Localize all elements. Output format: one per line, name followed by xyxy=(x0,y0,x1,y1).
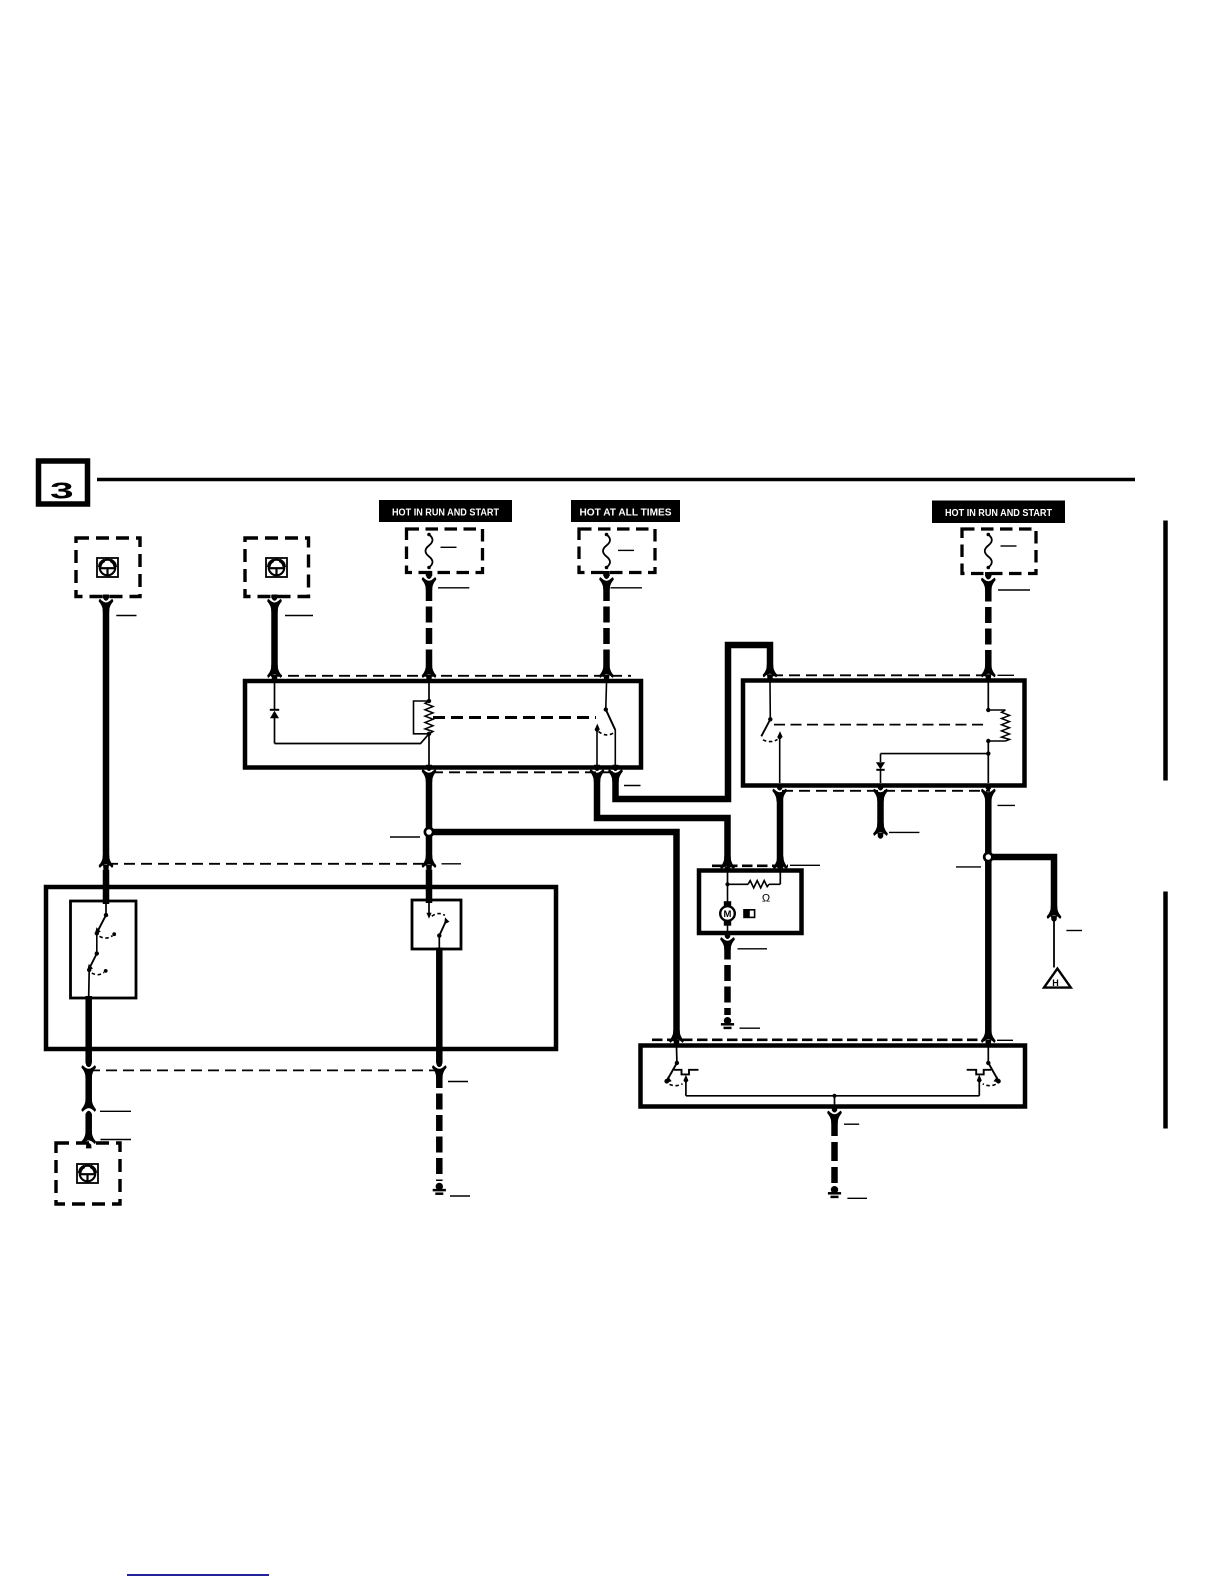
connector into switch box (from X1) xyxy=(99,855,113,904)
relay K2 row label line xyxy=(998,674,1015,676)
svg-text:3: 3 xyxy=(50,478,74,504)
wire fuse F3 to relay K2 (dashed thick) xyxy=(985,586,992,670)
fuse F2 in fuse box (dashed) xyxy=(579,529,655,573)
blower pictogram xyxy=(744,909,755,917)
wire junction to fan switch box (thick) xyxy=(985,861,992,1035)
relay K1 connector row (bottom) xyxy=(432,771,618,773)
connector out of K1 pin (coil) xyxy=(422,765,436,782)
wire label line below fuse F3 xyxy=(998,589,1030,591)
connector below motor box xyxy=(720,933,734,950)
watermark underline xyxy=(127,1574,269,1576)
switch S1b xyxy=(426,903,449,948)
wire label line right of S1b connector xyxy=(448,1081,468,1083)
motor box connector row (top) xyxy=(712,864,788,867)
wire junction down to switch box xyxy=(426,836,433,860)
fuse F1 value label line xyxy=(441,546,457,548)
ground G1 label line xyxy=(450,1195,470,1197)
relay K1 connector row (top) xyxy=(271,675,631,677)
wire label line left of junction xyxy=(956,866,981,868)
fuse F3 value label line xyxy=(1001,545,1017,547)
ground G2 xyxy=(721,1017,734,1028)
connector into fan switch box (left pin) xyxy=(669,1030,683,1046)
fuse F3 in fuse box (dashed) xyxy=(962,529,1036,574)
wire K2 coil down (thick) xyxy=(985,795,992,853)
svg-text:M: M xyxy=(724,909,732,920)
wire S1b to ground (dashed thick) xyxy=(436,1072,443,1181)
node junction on coil wire xyxy=(984,853,992,861)
svg-text:HOT IN RUN AND START: HOT IN RUN AND START xyxy=(392,507,499,519)
wire label line below K1 xyxy=(624,785,641,787)
ground G3 label line xyxy=(847,1197,867,1199)
connector into switch box (from K1) xyxy=(422,855,436,903)
connector into relay K2 pin (from F3) xyxy=(981,665,995,681)
connector below fuse F1 xyxy=(426,571,433,576)
wire X1 to switch box (thick) xyxy=(103,607,110,860)
wire label line below K2 xyxy=(998,804,1016,806)
wire label line at junction xyxy=(390,836,420,838)
badge HOT IN RUN AND START (right) xyxy=(932,501,1065,524)
switch S1a inner box xyxy=(71,901,137,998)
dashed control link inside K2 xyxy=(774,724,986,726)
component box X2 (steering column ref, dashed) xyxy=(245,538,309,597)
relay K1 contact switch xyxy=(595,683,616,766)
connector out of K1 pin (contact right) xyxy=(608,765,622,782)
svg-text:HOT IN RUN AND START: HOT IN RUN AND START xyxy=(945,507,1052,519)
unterminated stub from K2 diode xyxy=(873,795,887,839)
connector on heater branch xyxy=(1047,906,1061,922)
wire to heater symbol (thin) xyxy=(1053,920,1055,968)
svg-text:H: H xyxy=(1052,978,1059,988)
switch S1a (two stage) xyxy=(87,904,116,997)
switch box S1 row label line xyxy=(442,863,462,865)
diode D2 inside K2 xyxy=(876,754,988,783)
component box X3 (steering column ref, dashed) xyxy=(56,1143,120,1204)
wire junction to box edge xyxy=(834,1096,836,1107)
connector below fuse F3 xyxy=(985,572,992,577)
wire fuse F1 to relay K1 (dashed thick) xyxy=(426,585,433,670)
fuse F2 value label line xyxy=(618,549,634,551)
connector below X2 xyxy=(271,595,278,598)
wire branch junction to heater ref (thick) xyxy=(992,857,1054,911)
connector into relay K1 pin (from F1) xyxy=(422,665,436,681)
page number box 3 xyxy=(39,461,88,504)
fan switch row label line xyxy=(997,1039,1013,1041)
wire label line below fuse F2 xyxy=(611,587,643,589)
wire S1a to box edge (thick) xyxy=(85,996,92,1047)
thermo switch T1 (left) xyxy=(664,1048,698,1096)
wire label line on heater branch xyxy=(1066,930,1082,932)
connector out of K2 (diode) xyxy=(873,784,887,801)
wire inside K1 from diode to coil xyxy=(275,734,430,744)
switch box S1 connector row (top) xyxy=(107,863,426,865)
switch box S1 body xyxy=(46,887,556,1049)
label line at connector C2 xyxy=(101,1139,132,1141)
relay K2 coil xyxy=(986,682,1009,783)
relay K2 contact switch xyxy=(761,682,782,783)
badge HOT AT ALL TIMES xyxy=(571,500,680,522)
connector out of K1 pin (contact left) xyxy=(590,765,604,782)
dashed control link inside K1 xyxy=(433,716,596,719)
connector into fan switch box (right pin) xyxy=(981,1030,995,1046)
diode D1 inside K1 xyxy=(270,683,279,744)
wire junction to fan resistor box (thick, right then down) xyxy=(433,832,677,1035)
wire fan switch to ground (dashed thick) xyxy=(831,1117,838,1183)
connector out of K2 (contact) xyxy=(772,784,786,801)
wire chain segment (thick) xyxy=(85,1114,92,1136)
motor box row label line xyxy=(790,864,820,866)
blower motor box body xyxy=(699,871,802,934)
component box X1 (steering column ref, dashed) xyxy=(76,538,140,597)
resistor R1 (blower resistor) xyxy=(728,872,781,888)
connector below fuse F2 xyxy=(603,571,610,576)
wire fuse F2 to relay K1 (dashed thick) xyxy=(603,585,610,670)
connector into motor box (right pin) xyxy=(773,857,787,873)
wire label line below X2 xyxy=(285,615,313,617)
connector out of S1b xyxy=(432,1049,446,1078)
thermo switch T2 (right) xyxy=(967,1048,1001,1096)
connector out of S1a xyxy=(81,1049,95,1078)
relay K1 coil xyxy=(414,683,434,766)
wire label line below fuse F1 xyxy=(438,587,469,589)
connector C1 on chain xyxy=(81,1099,95,1116)
wire K2 contact to motor box (thick) xyxy=(777,795,784,861)
relay K2 connector row (bottom) xyxy=(782,790,990,792)
heater reference triangle H xyxy=(1044,969,1071,988)
connector into relay K2 (left pin) xyxy=(763,665,777,681)
connector below fan switch box xyxy=(827,1106,841,1123)
wire S1b to box edge (thick) xyxy=(436,948,443,1048)
relay K2 connector row (top) xyxy=(772,674,990,676)
connector out of K2 (coil) xyxy=(981,784,995,801)
connector into motor box (left pin) xyxy=(720,857,734,873)
wire K1 contact left to blower motor box (thick) xyxy=(597,776,728,862)
label line at connector C1 xyxy=(100,1110,131,1112)
right page border bar lower xyxy=(1163,892,1168,1129)
switch S1b inner box xyxy=(412,900,461,949)
badge HOT IN RUN AND START (left) xyxy=(379,500,512,522)
ground G2 label line xyxy=(740,1027,761,1029)
ground G1 xyxy=(433,1183,446,1194)
wire label line below fan switch box xyxy=(844,1123,859,1125)
motor M1 (blower motor) xyxy=(720,884,735,931)
connector below X1 xyxy=(103,595,110,598)
right page border bar upper xyxy=(1163,521,1168,781)
fan switch box connector row (top) xyxy=(652,1039,985,1042)
connector C2 on chain xyxy=(81,1131,95,1148)
ground G3 xyxy=(828,1186,841,1197)
fan switch box body xyxy=(641,1046,1026,1107)
relay K1 body xyxy=(245,681,641,768)
connector into relay K1 (from X2) xyxy=(267,665,281,681)
wire X2 to relay K1 (thick) xyxy=(271,607,278,670)
wire motor to ground (dashed thick) xyxy=(724,944,731,1016)
title rule xyxy=(97,478,1135,482)
svg-text:Ω: Ω xyxy=(762,893,770,905)
node junction on interconnect xyxy=(832,1094,836,1098)
wire T1 to T2 interconnect xyxy=(686,1095,979,1097)
svg-text:HOT AT ALL TIMES: HOT AT ALL TIMES xyxy=(580,507,672,519)
wire S1a to connector chain (thick) xyxy=(85,1072,92,1104)
wire label line below X1 xyxy=(116,615,136,617)
node junction on coil wire xyxy=(425,828,433,836)
wire K1 coil to switch box (thick) xyxy=(426,776,433,829)
stub label line xyxy=(889,831,919,833)
wire label line below motor box xyxy=(738,948,768,950)
connector into relay K1 pin (from F2) xyxy=(599,665,613,681)
node inside motor box xyxy=(725,872,729,886)
relay K2 body xyxy=(743,681,1025,786)
fuse F1 in fuse box (dashed) xyxy=(407,529,483,573)
wire K1 contact right to relay K2 (thick, n-shaped) xyxy=(616,645,771,799)
switch box S1 connector row (bottom) xyxy=(89,1069,439,1071)
